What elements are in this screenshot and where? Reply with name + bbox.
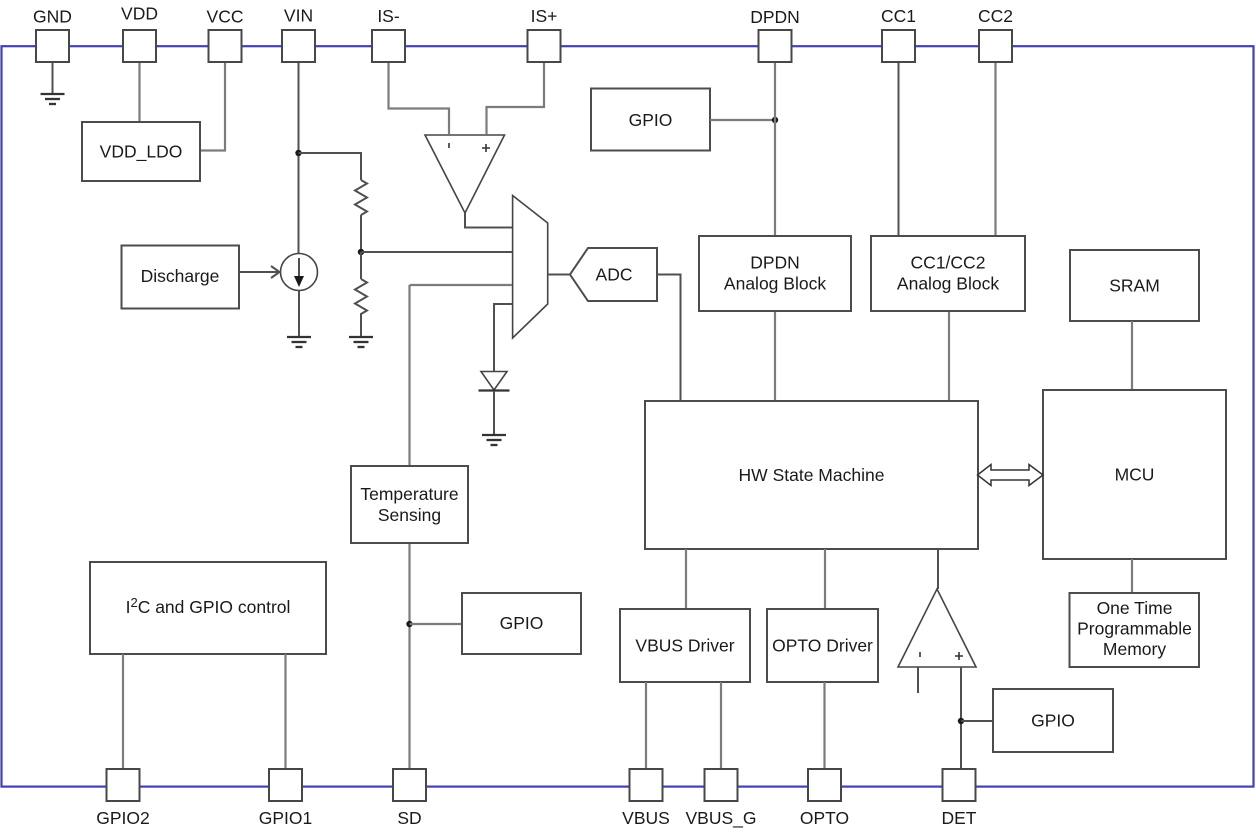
wire DET node to GPIO — [961, 720, 993, 722]
pad GPIO1 — [269, 769, 302, 801]
wire VDD pad to VDD_LDO — [138, 62, 140, 122]
block DPDN Analog Block — [699, 236, 851, 311]
pad VBUS — [630, 769, 663, 801]
block I2C and GPIO control — [90, 562, 326, 654]
pad SD — [393, 769, 426, 801]
svg-text:VDD_LDO: VDD_LDO — [100, 142, 183, 163]
svg-text:VDD: VDD — [121, 4, 158, 24]
node VIN junction — [295, 150, 301, 156]
block GPIO bottom right — [993, 689, 1113, 752]
svg-text:VBUS_G: VBUS_G — [686, 808, 757, 829]
block VBUS Driver — [620, 609, 750, 682]
diode D1 — [479, 372, 510, 391]
wire GND pad to ground — [52, 62, 54, 93]
wire mux output to ADC — [548, 274, 570, 276]
node DET junction — [958, 718, 964, 724]
wire node to resistor R2 — [360, 252, 362, 279]
pad GPIO2 — [107, 769, 140, 801]
svg-text:CC2: CC2 — [978, 6, 1013, 26]
svg-text:DPDN: DPDN — [750, 253, 800, 273]
comparator U2 detect — [898, 589, 976, 667]
wire VIN node to resistor R1 — [299, 153, 362, 180]
wire VCC pad to VDD_LDO — [200, 62, 225, 151]
resistor R1 — [355, 180, 367, 215]
svg-text:Sensing: Sensing — [378, 505, 441, 525]
wire HW SM to OPTO driver — [824, 549, 826, 609]
pad VIN — [282, 30, 315, 62]
wire VBUS driver to VBUS pad — [645, 682, 647, 770]
block Discharge — [122, 246, 240, 309]
svg-text:Analog Block: Analog Block — [897, 274, 999, 294]
block GPIO middle — [462, 593, 581, 654]
svg-text:DET: DET — [942, 808, 977, 828]
bidirectional bus arrow HW SM to MCU — [978, 465, 1044, 486]
block SRAM — [1070, 250, 1199, 321]
resistor R2 — [355, 279, 367, 317]
svg-text:One Time: One Time — [1097, 598, 1173, 618]
node resistor divider — [358, 249, 364, 255]
block GPIO top — [591, 89, 710, 151]
ADC block — [570, 248, 657, 301]
mux analog multiplexer — [513, 196, 548, 339]
wire I2C to GPIO1 pad — [284, 654, 286, 770]
wire diode to ground — [493, 391, 495, 434]
svg-text:OPTO Driver: OPTO Driver — [772, 636, 873, 656]
wire comparator input to DET pad — [960, 667, 962, 769]
wire HW SM to comparator — [937, 549, 939, 589]
wire OPTO driver to OPTO pad — [823, 682, 825, 770]
block Temperature Sensing — [351, 466, 468, 543]
pad CC2 — [979, 30, 1012, 62]
pad VCC — [209, 30, 242, 62]
svg-text:VIN: VIN — [284, 6, 313, 26]
pad CC1 — [882, 30, 915, 62]
block CC1/CC2 Analog Block — [871, 236, 1025, 311]
wire IS+ to op-amp — [487, 62, 545, 134]
wire IS- to op-amp — [389, 62, 450, 134]
svg-text:Analog Block: Analog Block — [724, 274, 826, 294]
svg-text:DPDN: DPDN — [750, 7, 800, 27]
wire VBUS driver to VBUS_G pad — [720, 682, 722, 770]
svg-text:SD: SD — [397, 808, 421, 828]
ground R2 — [349, 337, 373, 347]
svg-text:CC1: CC1 — [881, 6, 916, 26]
wire divider node to mux — [361, 251, 512, 253]
svg-text:OPTO: OPTO — [800, 808, 849, 828]
pad DET — [943, 769, 976, 801]
wire DPDN analog block to HW state machine — [774, 311, 776, 401]
svg-text:Programmable: Programmable — [1077, 619, 1192, 639]
svg-text:CC1/CC2: CC1/CC2 — [911, 253, 986, 273]
pad VDD — [123, 30, 156, 62]
svg-text:Discharge: Discharge — [141, 266, 220, 286]
node DPDN junction — [772, 117, 778, 123]
wire MCU to OTP memory — [1131, 559, 1133, 592]
wire R1 to node — [360, 215, 362, 252]
svg-text:GPIO1: GPIO1 — [259, 808, 313, 828]
pad GND — [36, 30, 69, 62]
svg-text:Temperature: Temperature — [360, 484, 458, 504]
block OPTO Driver — [767, 609, 878, 682]
node SD junction — [406, 621, 412, 627]
wire CC1 pad to analog block — [898, 62, 900, 236]
svg-text:Memory: Memory — [1103, 639, 1166, 659]
wire temperature sense to mux — [410, 284, 513, 286]
wire current source to ground — [298, 291, 300, 337]
svg-text:GND: GND — [33, 7, 72, 27]
wire op-amp output to mux — [465, 213, 512, 228]
wire SD node to GPIO — [410, 623, 463, 625]
wire HW SM to VBUS driver — [685, 549, 687, 609]
ground current source — [287, 337, 311, 347]
wire mux to diode D1 — [494, 304, 512, 371]
wire GPIO to DPDN line — [710, 119, 775, 121]
svg-text:HW State Machine: HW State Machine — [739, 465, 885, 485]
block VDD_LDO — [82, 122, 200, 181]
wire VIN pad down to current source — [298, 62, 300, 254]
svg-text:GPIO: GPIO — [629, 110, 673, 130]
wire mux to temperature sensing block — [408, 285, 410, 466]
svg-text:I2C and GPIO control: I2C and GPIO control — [126, 595, 291, 617]
pad VBUS_G — [705, 769, 738, 801]
block HW State Machine — [645, 401, 978, 549]
wire R2 to ground — [360, 317, 362, 336]
svg-text:GPIO2: GPIO2 — [96, 808, 150, 828]
wire Discharge to current source arrow — [240, 266, 280, 278]
ground GND pin — [41, 94, 65, 104]
svg-text:VBUS Driver: VBUS Driver — [635, 636, 734, 656]
current source I1 — [281, 254, 318, 291]
wire comparator reference stub — [917, 667, 919, 693]
svg-text:MCU: MCU — [1115, 465, 1155, 485]
wire DPDN pad to DPDN analog block — [774, 62, 776, 236]
wire SRAM to MCU — [1131, 321, 1133, 390]
op-amp U1 current sense amplifier — [425, 135, 505, 213]
svg-text:IS+: IS+ — [531, 6, 558, 26]
svg-text:ADC: ADC — [596, 265, 633, 285]
wire ADC to HW state machine — [657, 275, 681, 402]
ground diode — [482, 435, 506, 445]
svg-text:VBUS: VBUS — [622, 808, 670, 828]
wire temperature sensing to SD pad — [408, 543, 410, 770]
wire I2C to GPIO2 pad — [122, 654, 124, 770]
block MCU — [1043, 390, 1226, 559]
pad DPDN — [759, 30, 792, 62]
pad OPTO — [808, 769, 841, 801]
svg-text:SRAM: SRAM — [1109, 276, 1160, 296]
wire CC analog block to HW state machine — [948, 311, 950, 401]
svg-text:GPIO: GPIO — [1031, 711, 1075, 731]
svg-text:GPIO: GPIO — [500, 613, 544, 633]
svg-text:VCC: VCC — [207, 7, 244, 27]
block One Time Programmable Memory — [1070, 593, 1200, 667]
pad IS- — [372, 30, 405, 62]
wire CC2 pad to analog block — [994, 62, 996, 236]
svg-text:IS-: IS- — [377, 6, 400, 26]
pad IS+ — [528, 30, 561, 62]
